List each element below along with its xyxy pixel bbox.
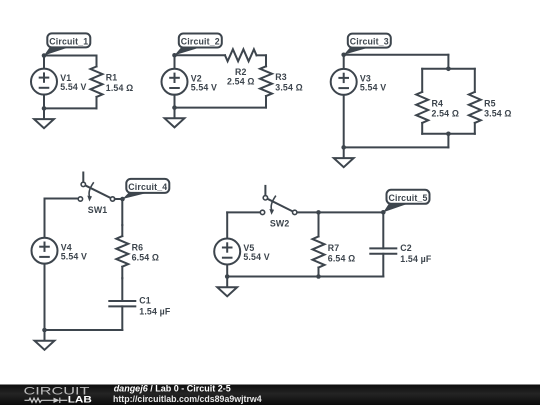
svg-text:6.54 Ω: 6.54 Ω xyxy=(328,253,356,263)
svg-text:R7: R7 xyxy=(328,243,340,253)
wire bottom rail circuit 3 xyxy=(344,146,449,148)
svg-text:5.54 V: 5.54 V xyxy=(60,82,86,92)
wire top rail circuit 1 xyxy=(44,55,97,57)
svg-text:C2: C2 xyxy=(400,243,412,253)
svg-text:Circuit_2: Circuit_2 xyxy=(181,37,220,47)
voltage source V5 xyxy=(214,239,240,265)
wire R6 to C1 xyxy=(121,278,123,301)
wire C2 top lead xyxy=(382,212,384,248)
svg-text:5.54 V: 5.54 V xyxy=(243,252,269,262)
wire top rail circuit 2 right xyxy=(257,54,267,56)
svg-text:R5: R5 xyxy=(484,98,496,108)
CircuitLab logo squiggle (resistor + diode) xyxy=(25,398,68,403)
ground circuit 1 xyxy=(34,108,54,128)
resistor R6 xyxy=(116,225,128,278)
wire V3 top lead xyxy=(343,55,345,69)
svg-text:R1: R1 xyxy=(106,73,118,83)
voltage source V1 xyxy=(31,69,57,95)
ground circuit 2 xyxy=(165,108,185,128)
node R7 top junction xyxy=(316,210,321,215)
resistor R1 xyxy=(91,56,103,109)
node label Circuit_1 xyxy=(44,33,90,55)
node Circuit_3 attach xyxy=(341,53,346,58)
svg-text:3.54 Ω: 3.54 Ω xyxy=(275,83,303,93)
node Circuit_2 attach xyxy=(172,53,177,58)
svg-text:R4: R4 xyxy=(432,98,444,108)
svg-text:5.54 V: 5.54 V xyxy=(191,82,217,92)
svg-text:SW2: SW2 xyxy=(270,218,290,228)
svg-text:2.54 Ω: 2.54 Ω xyxy=(227,76,255,86)
resistor R3 xyxy=(260,55,272,107)
ground circuit 4 xyxy=(35,330,55,350)
node label Circuit_4 xyxy=(123,179,170,199)
wire bottom rail circuit 4 xyxy=(45,329,123,331)
wire top rail circuit 5 right xyxy=(319,211,384,213)
node circuit 1 ground junction xyxy=(42,106,47,111)
svg-text:LAB: LAB xyxy=(68,395,93,405)
svg-text:Circuit_4: Circuit_4 xyxy=(128,182,167,192)
wire V4 bottom lead xyxy=(44,264,46,330)
voltage source V3 xyxy=(331,69,357,95)
voltage source V2 xyxy=(162,69,188,95)
ground circuit 3 xyxy=(334,147,354,167)
ground circuit 5 xyxy=(217,277,237,297)
node Circuit_4 attach xyxy=(120,197,125,202)
wire top rail circuit 2 left xyxy=(175,54,226,56)
svg-text:Circuit_1: Circuit_1 xyxy=(49,36,88,46)
wire bottom rail circuit 2 xyxy=(175,107,267,109)
wire switch common to R7 node xyxy=(298,211,319,213)
wire parallel top rail xyxy=(422,68,475,70)
wire C2 bottom lead xyxy=(382,254,384,277)
wire V1 bottom lead xyxy=(43,95,45,109)
svg-text:R3: R3 xyxy=(275,72,287,82)
wire top rail circuit 4 left xyxy=(45,198,79,200)
wire V3 bottom lead xyxy=(343,95,345,147)
svg-text:Circuit_5: Circuit_5 xyxy=(389,193,428,203)
wire V2 top lead xyxy=(174,55,176,69)
capacitor C2 xyxy=(370,248,396,253)
node circuit 3 ground junction xyxy=(341,145,346,150)
svg-text:dangej6 / Lab 0 - Circuit 2-5: dangej6 / Lab 0 - Circuit 2-5 xyxy=(114,384,231,394)
wire V2 bottom lead xyxy=(174,95,176,108)
node circuit 4 ground junction xyxy=(42,328,47,333)
svg-text:1.54 µF: 1.54 µF xyxy=(400,254,432,264)
svg-text:R6: R6 xyxy=(132,242,144,252)
svg-text:SW1: SW1 xyxy=(88,205,108,215)
node Circuit_1 attach xyxy=(42,53,47,58)
wire top rail circuit 5 left xyxy=(227,211,260,213)
wire V5 bottom lead xyxy=(226,265,228,277)
svg-text:5.54 V: 5.54 V xyxy=(360,83,386,93)
resistor R4 xyxy=(416,69,428,134)
wire top rail circuit 3 xyxy=(344,54,449,56)
wire bottom rail circuit 1 xyxy=(44,107,97,109)
node label Circuit_3 xyxy=(344,34,391,55)
node Circuit_5 attach xyxy=(381,210,386,215)
svg-text:C1: C1 xyxy=(139,296,151,306)
svg-text:6.54 Ω: 6.54 Ω xyxy=(132,253,160,263)
resistor R7 xyxy=(313,212,325,276)
voltage source V4 xyxy=(32,238,58,264)
node circuit 5 ground junction xyxy=(225,274,230,279)
wire from parallel pair bottom xyxy=(447,134,449,148)
wire node to R6 xyxy=(121,199,123,225)
node R7 bottom junction xyxy=(316,274,321,279)
switch SW2 (SPDT) xyxy=(260,186,297,215)
capacitor C1 xyxy=(109,301,135,306)
node label Circuit_5 xyxy=(383,190,429,213)
wire parallel bottom rail xyxy=(422,133,475,135)
wire V4 top lead xyxy=(44,199,46,238)
svg-text:2.54 Ω: 2.54 Ω xyxy=(432,109,460,119)
wire V1 top lead xyxy=(43,56,45,69)
wire switch common to node xyxy=(115,198,123,200)
resistor R2 xyxy=(225,49,257,61)
wire to parallel pair top xyxy=(447,55,449,69)
wire V5 top lead xyxy=(226,212,228,238)
svg-text:Circuit_3: Circuit_3 xyxy=(350,37,389,47)
node parallel bottom junction xyxy=(446,132,451,137)
svg-text:1.54 µF: 1.54 µF xyxy=(139,306,171,316)
wire C1 to bottom rail xyxy=(121,306,123,330)
svg-text:1.54 Ω: 1.54 Ω xyxy=(106,83,134,93)
switch SW1 (SPDT) xyxy=(78,173,115,202)
node circuit 2 ground junction xyxy=(172,105,177,110)
node parallel top junction xyxy=(446,67,451,72)
resistor R5 xyxy=(469,69,481,134)
svg-text:http://circuitlab.com/cds89a9w: http://circuitlab.com/cds89a9wjtrw4 xyxy=(113,394,262,404)
svg-text:5.54 V: 5.54 V xyxy=(61,251,87,261)
node label Circuit_2 xyxy=(175,34,222,56)
footer bar xyxy=(0,385,540,405)
svg-text:R2: R2 xyxy=(235,67,247,77)
svg-text:3.54 Ω: 3.54 Ω xyxy=(484,109,512,119)
wire bottom rail circuit 5 xyxy=(227,276,383,278)
